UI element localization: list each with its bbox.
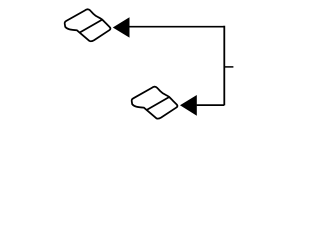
node shape 1 (hand-drawn rotated box, top-left) [65, 9, 111, 41]
arrowhead into node 1 [113, 17, 130, 37]
wire bottom horizontal from bus to arrow [197, 104, 225, 106]
node shape 2 (hand-drawn rotated box, bottom) [132, 87, 178, 119]
wire vertical bus [223, 26, 225, 105]
wire top horizontal from arrow to right bus [130, 26, 225, 28]
arrowhead into node 2 [180, 95, 197, 116]
wire stub tick on bus [224, 66, 233, 68]
